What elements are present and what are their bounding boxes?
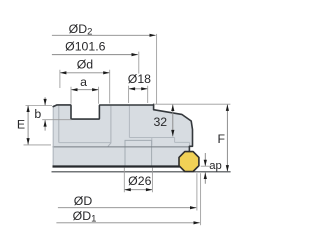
arrowhead a right [92, 88, 99, 91]
cutter body section fill [53, 105, 193, 167]
svg-text:ØD: ØD [74, 194, 93, 208]
dimension line Od [60, 72, 110, 74]
flange top edge [53, 146, 190, 148]
dimension line a [71, 89, 99, 91]
bore wall right (internal edge, Od) [108, 106, 111, 147]
svg-text:E: E [17, 118, 25, 132]
extension lines O26 [124, 168, 152, 193]
arrowhead F top [226, 104, 229, 111]
dimension line O26 [124, 189, 152, 191]
arrowhead ap top [204, 160, 207, 167]
hub bore walls (O26) [125, 140, 152, 166]
body left edge [52, 106, 54, 166]
svg-text:F: F [218, 132, 226, 146]
arrowhead a left [71, 88, 78, 91]
arrowhead E bottom [27, 138, 30, 145]
extension line OD [196, 173, 198, 210]
dimension line E [27, 106, 29, 145]
dimension line O18 [129, 88, 148, 90]
extension lines O18 [129, 86, 148, 103]
svg-text:ØD1: ØD1 [73, 209, 97, 225]
dimension line OD2 [52, 34, 156, 36]
arrowhead O18 right [141, 87, 148, 90]
bore wall left (internal edge) [58, 106, 60, 143]
arrowhead F bottom [226, 165, 229, 172]
arrowhead 32 top [171, 105, 174, 112]
svg-text:Ød: Ød [77, 58, 94, 72]
dimension line b (outside arrows) [44, 97, 46, 130]
arrowhead O26 left [124, 188, 131, 191]
arrowhead Od right [103, 71, 110, 74]
dimension line O101.6 [52, 54, 138, 56]
body top outline with mounting slot [53, 105, 153, 119]
arrowhead Od left [60, 71, 67, 74]
extension line ap (body bottom plane) [201, 165, 210, 167]
extension line OD1 [200, 173, 202, 225]
dimension line OD1 [56, 222, 199, 224]
svg-text:Ø18: Ø18 [128, 72, 151, 86]
svg-text:ap: ap [209, 160, 222, 172]
arrowhead O26 right [146, 188, 153, 191]
svg-text:b: b [34, 107, 41, 121]
extension lines Od [60, 70, 110, 104]
insert (octagonal cutting insert) [179, 152, 199, 172]
arrowhead b bottom [44, 120, 47, 127]
extension line OD2 [156, 34, 158, 104]
cutting plane reference line [52, 171, 231, 173]
internal step edges center [129, 106, 189, 147]
body right outline: step, chamfer, right edge, insert pocket [154, 104, 193, 151]
extension lines a [71, 87, 99, 104]
arrowhead ap bottom [204, 173, 207, 180]
arrowhead O18 left [129, 87, 136, 90]
extension line E/b top [26, 105, 53, 107]
extension line E bottom [24, 144, 52, 146]
svg-text:Ø101.6: Ø101.6 [65, 40, 105, 54]
internal shelf line left [59, 142, 111, 144]
svg-text:a: a [80, 75, 87, 89]
extension line O101.6 [138, 52, 140, 74]
dimension line ap (outside arrows) [204, 153, 206, 184]
arrowhead E top [27, 106, 30, 113]
svg-text:Ø26: Ø26 [128, 174, 151, 188]
dimension line 32 [172, 105, 174, 137]
body bottom face [53, 165, 181, 167]
extension line F top (face plane) [154, 103, 231, 105]
arrowhead b top [44, 99, 47, 106]
extension line b (slot bottom) [42, 119, 71, 121]
arrowhead 32 bottom [171, 130, 174, 137]
dimension line F [226, 104, 228, 171]
svg-text:32: 32 [153, 115, 167, 129]
dimension line OD [58, 207, 196, 209]
